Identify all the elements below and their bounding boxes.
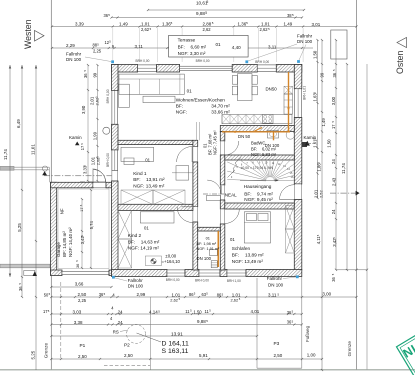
door mat Hauseingang <box>207 195 221 200</box>
svg-text:BF:: BF: <box>232 253 239 258</box>
svg-text:2,29: 2,29 <box>66 43 75 48</box>
vertical x=150.3 parking divider <box>149 297 151 370</box>
blue downspout markers <box>111 60 114 63</box>
wall Kind1/Kind2 y=204.3-210.5 <box>118 204 193 210</box>
svg-text:01: 01 <box>230 237 235 242</box>
garage benchmark symbol <box>24 271 35 276</box>
second line east x=367 <box>366 64 368 370</box>
property boundary east (Grenze), x=356.5 <box>356 0 358 370</box>
svg-text:1,01: 1,01 <box>261 21 270 26</box>
svg-text:24: 24 <box>118 310 123 315</box>
svg-text:9,88: 9,88 <box>196 11 205 16</box>
garage corner downspout circle <box>42 166 47 171</box>
dim chain y=48 <box>52 47 175 49</box>
dim line 36-5 9,88-5 38-5 y=17.5 <box>112 17 303 19</box>
svg-text:NF: NF <box>60 208 65 214</box>
dim chain y=324.5 <box>51 324 301 326</box>
svg-text:Fallrohr: Fallrohr <box>297 34 313 39</box>
svg-text:2,43: 2,43 <box>332 177 337 186</box>
svg-text:2,50: 2,50 <box>274 353 283 358</box>
kitchen/Bad wall y=125.5-131.5 <box>220 126 294 132</box>
svg-text:BF:: BF: <box>128 239 135 244</box>
door arc Kind 2 <box>182 206 193 208</box>
Kamin east block and label <box>302 142 307 147</box>
wardrobe Kind 2 crossed <box>118 211 132 240</box>
dashed boundary x=60.8 <box>60 282 62 359</box>
svg-text:2,25: 2,25 <box>93 49 102 54</box>
small dim connector bottom right <box>336 269 367 271</box>
bed Kind 1 crossed <box>121 190 153 205</box>
section marker triangle east <box>356 191 360 196</box>
WC room fixtures <box>210 250 218 256</box>
svg-text:1,49: 1,49 <box>119 21 128 26</box>
svg-text:3,66: 3,66 <box>75 281 84 286</box>
svg-text:BRH 1,01: BRH 1,01 <box>303 86 307 100</box>
svg-text:2,99: 2,99 <box>137 292 146 297</box>
svg-text:NGF: 9,45 m²: NGF: 9,45 m² <box>244 197 273 202</box>
svg-text:2,62: 2,62 <box>203 27 212 32</box>
garage internal dim lines <box>81 199 83 268</box>
svg-text:BRH 0,00: BRH 0,00 <box>166 278 180 282</box>
east dim line x=322 <box>321 40 323 370</box>
svg-text:36: 36 <box>76 264 80 268</box>
east dim line x=317.5 <box>317 40 319 198</box>
garage personnel door arc <box>93 170 106 183</box>
svg-text:DN 50: DN 50 <box>238 134 251 139</box>
svg-text:NGF: 13,49 m²: NGF: 13,49 m² <box>133 183 165 188</box>
svg-text:BadWC: BadWC <box>251 141 265 146</box>
svg-text:RS: RS <box>113 329 119 334</box>
orange pipe drop to Bad DN 100 <box>273 132 275 141</box>
west dim line x=36 <box>35 65 37 370</box>
svg-text:36: 36 <box>18 286 23 291</box>
svg-text:BRH 0,00: BRH 0,00 <box>195 278 209 282</box>
svg-text:±0,00 = 179,94 ü. NN: ±0,00 = 179,94 ü. NN <box>241 166 274 170</box>
garage left wall <box>51 182 57 275</box>
door arc Schlafen <box>225 208 239 210</box>
svg-text:3,11: 3,11 <box>268 44 277 49</box>
svg-text:3,11: 3,11 <box>268 293 277 298</box>
svg-text:4,01: 4,01 <box>251 309 260 314</box>
property boundary west (Grenze), x=51.3 <box>50 0 52 370</box>
svg-text:BRH 0,00: BRH 0,00 <box>106 89 110 103</box>
svg-text:13,91: 13,91 <box>171 331 183 336</box>
svg-text:2,62: 2,62 <box>141 27 150 32</box>
svg-text:3,11: 3,11 <box>135 44 144 49</box>
svg-text:01: 01 <box>187 88 193 93</box>
top right empty rectangle <box>331 30 347 59</box>
svg-text:Fußweg: Fußweg <box>305 325 310 342</box>
neighbour wall stub west upper <box>0 166 14 170</box>
svg-text:DN 100: DN 100 <box>66 57 82 62</box>
Bad bottom wall y=155-160 <box>225 155 294 160</box>
dashed kerb line <box>104 365 150 367</box>
svg-text:17: 17 <box>80 208 84 212</box>
east dim line x=336 <box>335 40 337 270</box>
svg-text:NGF: 14,40 m²: NGF: 14,40 m² <box>68 227 73 257</box>
RS tree circle dashed <box>127 325 146 344</box>
svg-text:Terrasse: Terrasse <box>178 37 196 42</box>
svg-text:2,88: 2,88 <box>203 21 212 26</box>
kitchen tall cabinets east <box>284 86 293 94</box>
section dash-dot line west <box>44 175 112 177</box>
west inner dim line x=88 <box>87 65 89 181</box>
svg-text:2,62: 2,62 <box>170 297 178 302</box>
svg-text:Kind 2: Kind 2 <box>128 233 142 238</box>
east dim line x=347 <box>346 64 348 270</box>
svg-text:9,74 m²: 9,74 m² <box>257 191 273 196</box>
svg-text:3,00: 3,00 <box>322 292 331 297</box>
hall door NEAL with arc <box>220 186 222 195</box>
svg-text:01: 01 <box>206 235 210 240</box>
hall east wall x=220.3-224.8 <box>220 132 225 142</box>
left exterior wall <box>112 65 119 91</box>
svg-text:5: 5 <box>207 0 209 4</box>
svg-text:Fallrohr: Fallrohr <box>267 276 283 281</box>
svg-text:11,74: 11,74 <box>3 149 8 160</box>
door arc Kind 1 <box>191 147 193 163</box>
dim chain y=297 <box>51 296 356 298</box>
svg-text:2,25: 2,25 <box>78 298 87 303</box>
svg-text:D 164,11: D 164,11 <box>162 341 189 348</box>
svg-text:24: 24 <box>118 320 123 325</box>
WC room top wall y=227.3-231 <box>198 227 221 231</box>
west dim line x=22 <box>21 65 23 297</box>
neighbour wall stub west lower <box>0 264 50 268</box>
svg-text:99: 99 <box>92 72 97 77</box>
dim chain y=314 <box>51 313 301 315</box>
svg-text:1,00: 1,00 <box>307 353 316 358</box>
svg-text:2,62: 2,62 <box>231 297 239 302</box>
garage bottom wall corners and gate <box>51 270 63 276</box>
svg-text:NGF:: NGF: <box>176 109 187 114</box>
svg-text:6,49: 6,49 <box>16 119 21 128</box>
svg-text:2,50: 2,50 <box>78 354 87 359</box>
orange pipe WC room <box>217 231 219 267</box>
svg-text:2,50: 2,50 <box>124 353 133 358</box>
svg-text:BF:: BF: <box>244 191 251 196</box>
orange pipe horizontal DN 50 run <box>222 131 290 133</box>
svg-text:3,01: 3,01 <box>312 22 321 27</box>
dining chairs <box>232 76 237 85</box>
svg-text:1,50: 1,50 <box>194 310 203 315</box>
witness lines from dim chain down to wall <box>112 28 114 62</box>
svg-text:13,89 m²: 13,89 m² <box>245 253 264 258</box>
wardrobe Schlafen crossed <box>286 206 295 229</box>
svg-text:3,00: 3,00 <box>331 96 336 105</box>
svg-text:3,39: 3,39 <box>75 21 84 26</box>
svg-text:17: 17 <box>80 145 85 150</box>
svg-text:=+164,10: =+164,10 <box>162 259 181 264</box>
svg-text:1,50: 1,50 <box>327 139 332 148</box>
bed Schlafen <box>244 212 270 243</box>
svg-text:1,99: 1,99 <box>93 131 98 140</box>
svg-text:36: 36 <box>331 277 336 282</box>
stove with 4 plates <box>263 115 274 124</box>
svg-text:11,74: 11,74 <box>341 163 346 174</box>
svg-text:DN50: DN50 <box>266 87 278 92</box>
svg-text:NGF: 3,30 m²: NGF: 3,30 m² <box>178 51 206 56</box>
svg-text:DN 100: DN 100 <box>268 282 284 287</box>
west dim line x=10 <box>9 65 11 277</box>
Fussweg strip lines <box>256 278 258 368</box>
svg-text:Westen: Westen <box>23 19 33 49</box>
svg-text:NGF: 14,19 m²: NGF: 14,19 m² <box>128 246 160 251</box>
dim chain y=26.5 full width <box>52 26 357 28</box>
svg-text:2,50: 2,50 <box>78 292 87 297</box>
section marker triangle west <box>42 171 47 175</box>
svg-text:BRH 1,00: BRH 1,00 <box>227 279 241 283</box>
svg-text:13,91 m²: 13,91 m² <box>146 177 165 182</box>
svg-text:Fallrohr: Fallrohr <box>128 278 144 283</box>
leader from circle to D label <box>137 333 162 342</box>
svg-text:S 163,11: S 163,11 <box>162 348 189 355</box>
svg-text:24: 24 <box>331 209 336 214</box>
svg-text:17: 17 <box>331 124 336 129</box>
svg-text:NGF: 5,83 m²: NGF: 5,83 m² <box>251 152 277 157</box>
svg-text:01: 01 <box>144 225 149 230</box>
svg-text:BRH 0,00: BRH 0,00 <box>255 60 269 64</box>
svg-text:Fallrohr: Fallrohr <box>66 52 82 57</box>
svg-text:NGF: 13,49 m²: NGF: 13,49 m² <box>232 259 264 264</box>
svg-text:Grenze: Grenze <box>44 342 49 358</box>
garage top wall with door opening <box>51 182 94 188</box>
svg-text:Kamin: Kamin <box>69 135 82 140</box>
entrance door arc east wall <box>280 199 295 201</box>
hall west wall x=193-197.7 <box>193 140 198 146</box>
svg-text:BRH 0,00: BRH 0,00 <box>136 59 150 63</box>
svg-text:24: 24 <box>331 159 336 164</box>
height benchmark Kind 2 <box>145 256 161 266</box>
svg-text:DN 100: DN 100 <box>297 39 313 44</box>
svg-text:1,49: 1,49 <box>321 118 326 127</box>
svg-text:3,38: 3,38 <box>74 320 83 325</box>
svg-text:P1: P1 <box>80 343 86 348</box>
washbasin Bad <box>268 131 279 139</box>
stair break line <box>228 158 242 178</box>
shower circle Bad <box>286 131 294 139</box>
svg-text:Hauseingang: Hauseingang <box>244 184 272 189</box>
svg-text:5: 5 <box>205 11 207 15</box>
sofa chaise part <box>119 84 130 107</box>
living room hall edge thin line <box>196 122 198 140</box>
garage inner offset line <box>58 189 109 269</box>
svg-text:01: 01 <box>216 42 222 47</box>
svg-text:BF: 1,98 m²: BF: 1,98 m² <box>197 242 217 246</box>
west inner dim line x=97.5 <box>97 65 99 181</box>
svg-text:4,40: 4,40 <box>232 45 241 50</box>
Bad door arc <box>225 141 239 155</box>
side door arc west <box>93 169 106 182</box>
svg-text:5,74: 5,74 <box>89 221 94 230</box>
dining table <box>238 74 253 101</box>
dim line y=336 <box>51 335 257 337</box>
svg-text:5,25: 5,25 <box>31 350 36 359</box>
svg-text:36: 36 <box>332 72 337 77</box>
svg-text:BF:: BF: <box>133 177 140 182</box>
right exterior wall <box>294 65 302 89</box>
Terrasse callout box <box>169 35 249 57</box>
dim chain y=359 <box>51 358 322 360</box>
svg-text:36: 36 <box>83 73 88 78</box>
desk Kind 1 <box>121 147 154 161</box>
top exterior wall hatched segments <box>112 65 138 73</box>
svg-text:Kind 1: Kind 1 <box>133 171 147 176</box>
svg-text:34,70 m²: 34,70 m² <box>211 104 230 109</box>
svg-text:6,60 m²: 6,60 m² <box>191 45 207 50</box>
svg-text:±0,00: ±0,00 <box>165 253 176 258</box>
svg-text:DN 100: DN 100 <box>128 283 144 288</box>
svg-text:2,52: 2,52 <box>319 190 324 198</box>
svg-text:1,49: 1,49 <box>284 21 293 26</box>
sofa living room <box>119 74 184 94</box>
svg-text:33,66 m²: 33,66 m² <box>211 109 230 114</box>
svg-text:3,03: 3,03 <box>73 309 82 314</box>
desk Kind 2 <box>140 212 174 223</box>
orange pipe kitchen vertical DN50 <box>288 72 290 132</box>
dresser Kind 1 <box>176 166 189 181</box>
svg-text:5,25: 5,25 <box>17 223 22 232</box>
svg-text:1,01: 1,01 <box>141 21 150 26</box>
svg-text:Grenze: Grenze <box>347 341 352 357</box>
stairs bottom wall y=203-209 <box>225 203 294 209</box>
terrace door thin section <box>180 66 233 70</box>
svg-text:BF:: BF: <box>176 104 183 109</box>
dim line 10,61-5 y=10 <box>148 9 304 11</box>
svg-text:1,50: 1,50 <box>313 50 318 59</box>
svg-text:P3: P3 <box>274 341 280 346</box>
svg-text:BF: 14,85 m²: BF: 14,85 m² <box>62 231 67 257</box>
coffee table <box>143 96 175 102</box>
svg-text:99: 99 <box>320 72 325 77</box>
entrance door opening right wall <box>295 184 302 200</box>
svg-text:NGF: 1,91 m²: NGF: 1,91 m² <box>197 247 220 251</box>
svg-text:BF:: BF: <box>178 45 185 50</box>
winder stairs <box>227 161 294 181</box>
svg-text:3,90: 3,90 <box>81 105 86 114</box>
svg-text:01: 01 <box>145 157 150 162</box>
street line bottom <box>0 369 415 371</box>
bottom exterior wall <box>112 270 168 277</box>
svg-text:BRH 0,00: BRH 0,00 <box>106 153 110 167</box>
svg-text:Wohnen/Essen/Kochen: Wohnen/Essen/Kochen <box>176 97 225 102</box>
svg-text:P2: P2 <box>124 342 130 347</box>
Kamin west circle and label <box>103 127 110 134</box>
stairs walking line with arrow <box>240 179 277 181</box>
green approval stamp corner <box>397 280 415 375</box>
svg-text:Osten: Osten <box>395 50 405 74</box>
section dash-dot line east <box>330 192 359 194</box>
svg-text:DN 100: DN 100 <box>197 256 212 261</box>
svg-text:5,91: 5,91 <box>199 353 208 358</box>
svg-text:Schlafen: Schlafen <box>232 246 251 251</box>
svg-text:9,88: 9,88 <box>197 319 206 324</box>
svg-text:NGF: 7,45 m²: NGF: 7,45 m² <box>213 130 218 155</box>
svg-text:14,63 m²: 14,63 m² <box>141 239 160 244</box>
svg-text:Garage: Garage <box>56 242 61 257</box>
side door opening left wall <box>112 171 118 182</box>
kitchen counter with cabinets <box>222 115 292 124</box>
svg-text:BRH 0,00: BRH 0,00 <box>196 59 210 63</box>
svg-text:11,01: 11,01 <box>31 144 36 155</box>
svg-text:2,62: 2,62 <box>260 27 269 32</box>
dim 3,66 y=287 <box>51 286 111 288</box>
svg-text:NEAL: NEAL <box>225 192 237 197</box>
wall living/Kind1 y=140.5-144.5 <box>118 140 193 144</box>
